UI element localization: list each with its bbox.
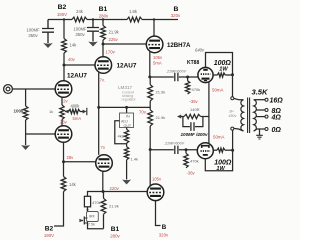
tap 8R [256, 109, 265, 111]
cathode V3a [149, 52, 151, 77]
wire to B1 bottom rail [88, 222, 104, 229]
resistor 470k grid lower [185, 150, 187, 154]
svg-text:regulator: regulator [122, 98, 137, 102]
triode V1b 12AU7 [55, 126, 72, 143]
svg-text:LM317: LM317 [118, 85, 132, 90]
svg-text:320v: 320v [171, 13, 181, 18]
output transformer T1 [234, 98, 239, 99]
svg-text:14k: 14k [70, 43, 78, 48]
svg-text:400k: 400k [71, 103, 81, 108]
svg-text:14k: 14k [69, 182, 77, 187]
wire [126, 143, 128, 146]
svg-text:-36v: -36v [187, 171, 196, 176]
wiper arrow [65, 111, 69, 113]
plate wire + resistor 100R upper [213, 74, 217, 76]
capacitor 22MF/600V lower [175, 146, 178, 154]
svg-text:1k: 1k [49, 109, 53, 114]
svg-text:280v: 280v [99, 14, 109, 19]
node plate V2a [102, 43, 105, 46]
mosfet symbol [80, 217, 84, 225]
tap 4R [256, 116, 265, 118]
svg-text:-36v: -36v [190, 99, 199, 104]
svg-text:1W: 1W [219, 67, 228, 73]
wire grid V2a [64, 64, 95, 66]
svg-text:105v: 105v [153, 55, 163, 60]
svg-text:470k: 470k [190, 159, 199, 164]
triode V2b 12AU7 [96, 155, 113, 172]
svg-text:7.5k: 7.5k [88, 223, 95, 227]
svg-text:100k: 100k [14, 109, 25, 114]
ground [43, 43, 53, 48]
node plate lower [231, 149, 234, 152]
wire tail [99, 106, 127, 108]
svg-text:40v: 40v [68, 57, 76, 62]
wire [63, 53, 65, 65]
triode V1a 12AU7 [55, 81, 72, 98]
resistor 21.9k (B1 drop) [102, 20, 104, 26]
wire plate V3a [153, 20, 155, 37]
node plate V1a [63, 64, 66, 67]
cathode line KT88s [208, 82, 210, 144]
resistor 140R [184, 114, 201, 118]
wire OPT bottom to plate [232, 130, 234, 150]
wire [102, 40, 104, 44]
resistor 14k lower [63, 162, 65, 177]
svg-text:3.5K: 3.5K [251, 88, 268, 97]
svg-text:320v: 320v [159, 233, 169, 238]
triode V3b 12BH7A [147, 184, 164, 201]
resistor 14k (B2 drop) [63, 20, 65, 39]
cathode V3b to B [156, 201, 161, 226]
triode V3a 12BH7A [146, 36, 163, 53]
wire plate V2a [102, 44, 104, 57]
wire [149, 126, 151, 150]
svg-text:4Ω: 4Ω [271, 115, 282, 122]
svg-text:.22MF/600V: .22MF/600V [164, 142, 185, 146]
wire ADJ [115, 121, 127, 144]
node cathode V3a [148, 76, 151, 79]
node tail [97, 106, 100, 109]
wire grid 12BH7A upper [103, 43, 146, 45]
svg-text:B1: B1 [99, 6, 108, 13]
bias network: arrow ground [181, 116, 184, 118]
wire plate V1b [63, 142, 65, 161]
svg-text:100MF: 100MF [26, 28, 40, 33]
wire [179, 76, 198, 78]
wire plate V1a [63, 65, 65, 81]
resistor 24k (B2 to B1) [72, 17, 87, 22]
cathode V2b [98, 107, 100, 154]
svg-text:IRF: IRF [89, 215, 96, 219]
node plate V1b [62, 160, 65, 163]
node grid KT88 lower [185, 148, 188, 151]
wire to 70v node [127, 106, 151, 108]
IRF box Q1 [87, 212, 99, 222]
tap 0R [254, 129, 265, 131]
ground secondary [259, 129, 261, 135]
input jack J1 [4, 85, 13, 94]
svg-text:450v: 450v [229, 114, 237, 118]
terminal [231, 127, 234, 130]
svg-text:B2: B2 [45, 226, 54, 233]
junction rail/cap2 [92, 18, 94, 20]
svg-text:12AU7: 12AU7 [117, 63, 137, 70]
wire plate V3b [149, 150, 151, 186]
svg-text:140R: 140R [190, 107, 200, 112]
wire pot to V1b [61, 120, 63, 127]
svg-text:12BH7A: 12BH7A [167, 42, 191, 49]
svg-text:225v: 225v [109, 37, 119, 42]
svg-text:IN: IN [126, 115, 130, 119]
junction rail/B1 [102, 18, 104, 20]
core [248, 98, 250, 134]
svg-text:0Ω: 0Ω [272, 127, 282, 134]
wire B+ rail top [48, 19, 178, 21]
svg-text:28v: 28v [67, 155, 75, 160]
node grid KT88 upper [186, 76, 189, 79]
wire grid V3b [64, 161, 96, 163]
svg-text:24k: 24k [76, 9, 84, 14]
resistor 4k8 [124, 129, 128, 143]
junction rail/B2 [63, 18, 65, 20]
wire [87, 207, 89, 212]
resistor 470k grid upper [187, 77, 189, 81]
ground bar arrow [80, 111, 83, 113]
ground [122, 180, 131, 185]
secondary [254, 100, 257, 131]
pentode KT88 upper [198, 67, 213, 82]
svg-text:25v: 25v [60, 120, 68, 125]
svg-text:50mA: 50mA [212, 88, 224, 93]
svg-text:70v: 70v [139, 109, 147, 114]
node plate upper [231, 73, 234, 76]
svg-text:50mA: 50mA [213, 135, 225, 140]
cathode V2a [98, 73, 100, 108]
svg-text:220v: 220v [110, 186, 120, 191]
triode V2a 12AU7 [95, 57, 112, 74]
node plate V2b [102, 190, 105, 193]
capacitor C2 100MF 350v [87, 20, 99, 42]
svg-text:B: B [162, 224, 167, 231]
svg-text:640v: 640v [195, 48, 205, 53]
svg-text:B1: B1 [111, 226, 120, 233]
node LM317 in [125, 106, 128, 109]
svg-text:100MF: 100MF [73, 27, 87, 32]
wire OUT [126, 128, 128, 130]
svg-text:21.9k: 21.9k [156, 115, 166, 120]
svg-text:4k8: 4k8 [118, 134, 125, 139]
svg-text:190V: 190V [44, 233, 54, 238]
resistor 1.4k [124, 147, 128, 160]
svg-text:190V: 190V [57, 12, 67, 17]
svg-text:7v.: 7v. [100, 78, 105, 83]
wire [201, 116, 209, 118]
svg-text:1.4k: 1.4k [131, 157, 139, 162]
svg-text:350v: 350v [75, 32, 85, 37]
potentiometer 1k cathode [60, 105, 64, 120]
svg-text:1.8k: 1.8k [129, 9, 138, 14]
svg-text:21.9k: 21.9k [156, 90, 166, 95]
svg-text:470k: 470k [192, 87, 201, 92]
resistor 100k [25, 89, 27, 106]
wire plate V2b [102, 171, 104, 191]
screen wire upper [206, 53, 233, 75]
capacitor C1 100MF 350v [42, 20, 54, 44]
wire coupling lower [150, 149, 174, 151]
resistor 1.8k (B1 to B) [127, 17, 142, 22]
svg-text:16Ω: 16Ω [270, 98, 284, 105]
LM317 box U1 [126, 107, 128, 113]
capacitor 100MF/400v [183, 117, 203, 127]
terminal [231, 97, 234, 100]
wire to B2 bottom [54, 192, 64, 227]
resistor 21.9k lower [148, 110, 153, 126]
svg-text:350v: 350v [28, 33, 38, 38]
wire grid V1b [26, 133, 56, 135]
svg-text:170v: 170v [106, 50, 116, 55]
svg-text:470k: 470k [92, 200, 101, 205]
screen wire lower [205, 150, 232, 171]
plate wire + resistor 100R lower [213, 149, 217, 151]
wire grid 12BH7A lower [103, 191, 147, 193]
svg-text:21.9k: 21.9k [109, 204, 119, 209]
svg-text:5mA: 5mA [73, 116, 82, 121]
svg-text:280v: 280v [110, 234, 120, 239]
wire [103, 214, 105, 229]
wire left branch [88, 192, 104, 197]
wire [179, 149, 197, 151]
svg-text:.22MF/600V: .22MF/600V [166, 70, 187, 74]
svg-text:KT88: KT88 [187, 60, 199, 66]
svg-text:B2: B2 [58, 4, 67, 11]
resistor 21.9k lower [103, 192, 105, 199]
wire [25, 120, 27, 145]
tap 16R [254, 99, 265, 101]
svg-text:OUT: OUT [124, 124, 132, 128]
node driver lower [149, 148, 152, 151]
ground [21, 145, 30, 150]
svg-text:5mA: 5mA [153, 61, 162, 66]
svg-text:12AU7: 12AU7 [67, 73, 87, 80]
wire coupling upper [150, 76, 174, 78]
pentode KT88 lower [197, 143, 213, 159]
wire input [12, 88, 55, 90]
capacitor 22MF/600V [175, 73, 178, 81]
svg-text:B+: B+ [230, 110, 235, 114]
wire to ground [126, 160, 128, 180]
ground [88, 42, 98, 47]
svg-text:21.9k: 21.9k [109, 30, 120, 35]
cathode V1a [61, 97, 63, 105]
wire to OPT top [232, 75, 234, 97]
resistor 400R wiper [69, 109, 80, 113]
resistor 470k box [84, 196, 90, 207]
svg-text:100MF /400v: 100MF /400v [180, 132, 208, 137]
resistor chain 21.9k upper [148, 85, 153, 101]
svg-text:105v: 105v [152, 177, 162, 182]
